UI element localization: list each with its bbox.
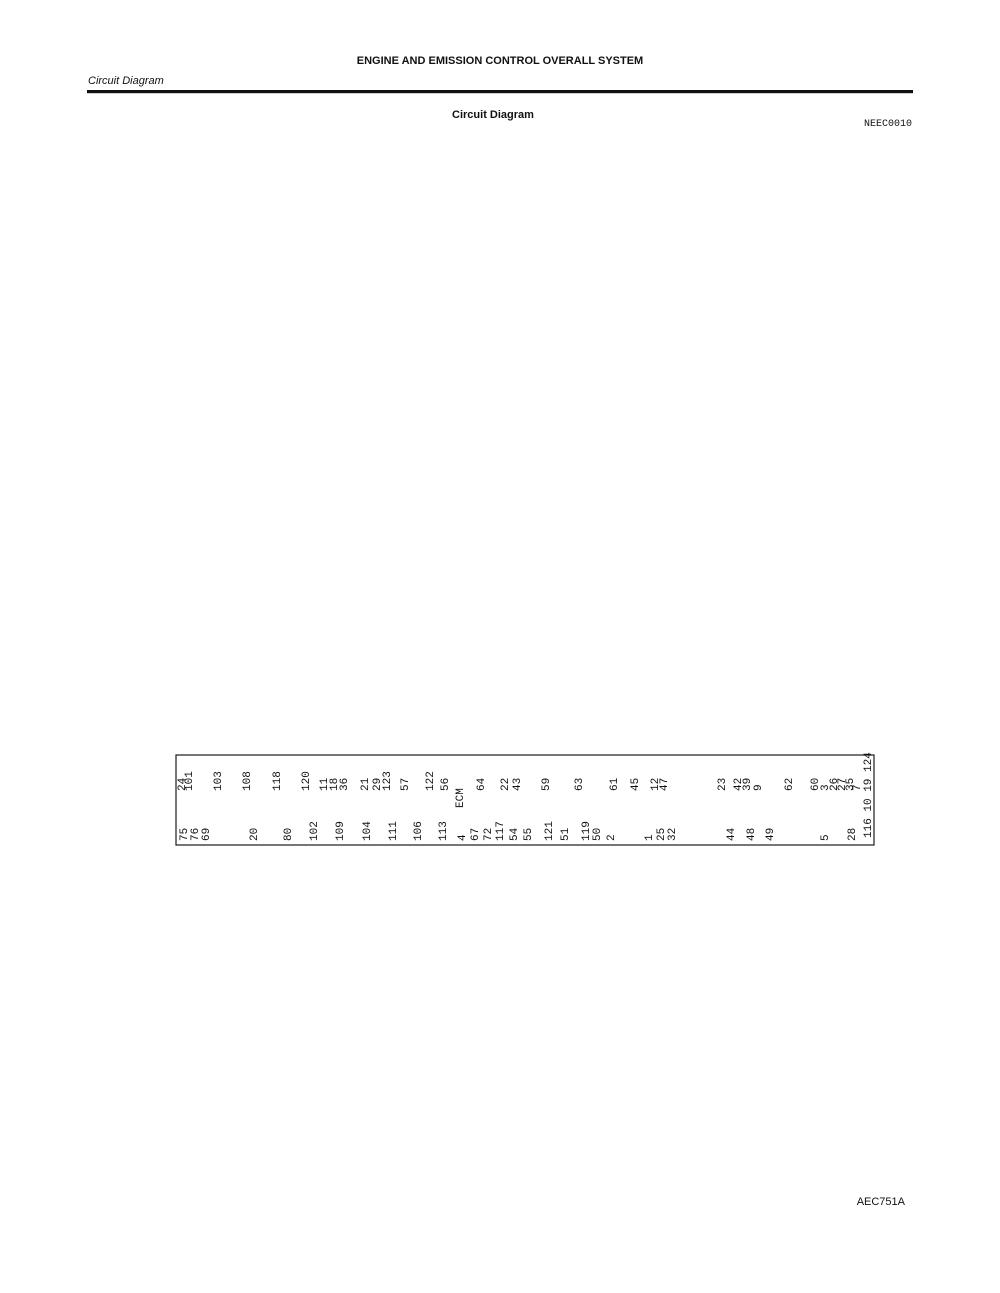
svg-text:ENGINE AND EMISSION CONTROL OV: ENGINE AND EMISSION CONTROL OVERALL SYST… — [357, 55, 643, 67]
svg-text:54: 54 — [509, 827, 521, 841]
svg-text:1: 1 — [644, 834, 656, 841]
svg-text:Circuit Diagram: Circuit Diagram — [88, 75, 164, 87]
svg-text:72: 72 — [483, 828, 495, 841]
svg-text:21: 21 — [360, 777, 372, 791]
svg-text:59: 59 — [541, 778, 553, 791]
svg-text:Circuit Diagram: Circuit Diagram — [452, 109, 534, 121]
svg-text:63: 63 — [574, 778, 586, 791]
svg-text:108: 108 — [242, 771, 254, 791]
svg-text:28: 28 — [847, 828, 859, 841]
svg-text:80: 80 — [283, 828, 295, 841]
svg-text:48: 48 — [746, 828, 758, 841]
svg-text:5: 5 — [820, 834, 832, 841]
svg-text:113: 113 — [438, 821, 450, 841]
svg-text:AEC751A: AEC751A — [857, 1196, 906, 1208]
svg-text:23: 23 — [717, 778, 729, 791]
svg-text:123: 123 — [382, 771, 394, 791]
svg-text:102: 102 — [309, 821, 321, 841]
svg-text:55: 55 — [523, 828, 535, 841]
ECM box — [176, 755, 874, 845]
svg-text:32: 32 — [667, 828, 679, 841]
svg-text:51: 51 — [560, 827, 572, 841]
svg-text:120: 120 — [301, 771, 313, 791]
svg-text:24: 24 — [177, 777, 189, 791]
svg-text:117: 117 — [495, 821, 507, 841]
svg-text:57: 57 — [400, 778, 412, 791]
svg-text:2: 2 — [606, 834, 618, 841]
svg-text:NEEC0010: NEEC0010 — [864, 119, 912, 130]
svg-text:56: 56 — [440, 778, 452, 791]
svg-text:45: 45 — [630, 778, 642, 791]
svg-text:ECM: ECM — [455, 788, 467, 808]
header — [87, 55, 913, 1208]
svg-text:104: 104 — [362, 821, 374, 841]
svg-text:118: 118 — [272, 771, 284, 791]
svg-text:109: 109 — [335, 821, 347, 841]
svg-text:62: 62 — [784, 778, 796, 791]
svg-text:49: 49 — [765, 828, 777, 841]
svg-text:4: 4 — [457, 834, 469, 841]
svg-text:9: 9 — [753, 784, 765, 791]
svg-text:67: 67 — [470, 828, 482, 841]
svg-text:106: 106 — [413, 821, 425, 841]
svg-text:61: 61 — [609, 777, 621, 791]
svg-text:47: 47 — [659, 778, 671, 791]
svg-text:22: 22 — [500, 778, 512, 791]
svg-text:121: 121 — [544, 821, 556, 841]
svg-text:44: 44 — [726, 827, 738, 841]
svg-text:116 10 19 124: 116 10 19 124 — [863, 752, 875, 838]
svg-text:103: 103 — [213, 771, 225, 791]
svg-text:43: 43 — [512, 778, 524, 791]
svg-text:69: 69 — [201, 828, 213, 841]
svg-text:20: 20 — [249, 828, 261, 841]
svg-text:64: 64 — [476, 777, 488, 791]
svg-text:50: 50 — [592, 828, 604, 841]
svg-text:122: 122 — [425, 771, 437, 791]
svg-text:36: 36 — [339, 778, 351, 791]
svg-text:111: 111 — [388, 821, 400, 841]
